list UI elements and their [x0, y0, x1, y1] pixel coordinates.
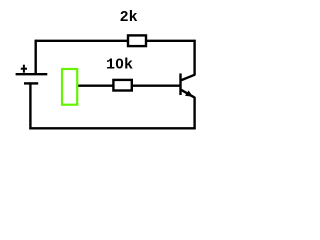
svg-text:2k: 2k — [120, 9, 138, 26]
wire emitter rail — [193, 97, 195, 129]
transistor Q1 base bar — [179, 73, 181, 95]
wire collector rail — [193, 40, 195, 76]
transistor Q1 emitter diagonal — [181, 90, 195, 98]
battery V1 negative plate — [24, 82, 38, 84]
wire base — [78, 84, 181, 86]
battery V1 positive plate — [16, 73, 48, 75]
wire battery positive lead — [35, 40, 37, 74]
wire battery negative lead — [29, 82, 31, 129]
resistor R1 2k body — [128, 35, 146, 46]
resistor R2 10k body — [113, 80, 131, 91]
transistor Q1 emitter arrowhead — [185, 91, 193, 97]
label 10k zero-dot cover — [118, 62, 121, 65]
wire top rail — [35, 40, 196, 42]
wire bottom rail — [29, 127, 195, 129]
component U1 selected/highlighted body (green) — [62, 69, 77, 105]
transistor Q1 collector diagonal — [181, 75, 195, 81]
battery V1 plus sign — [21, 65, 27, 73]
svg-text:10k: 10k — [106, 57, 133, 74]
